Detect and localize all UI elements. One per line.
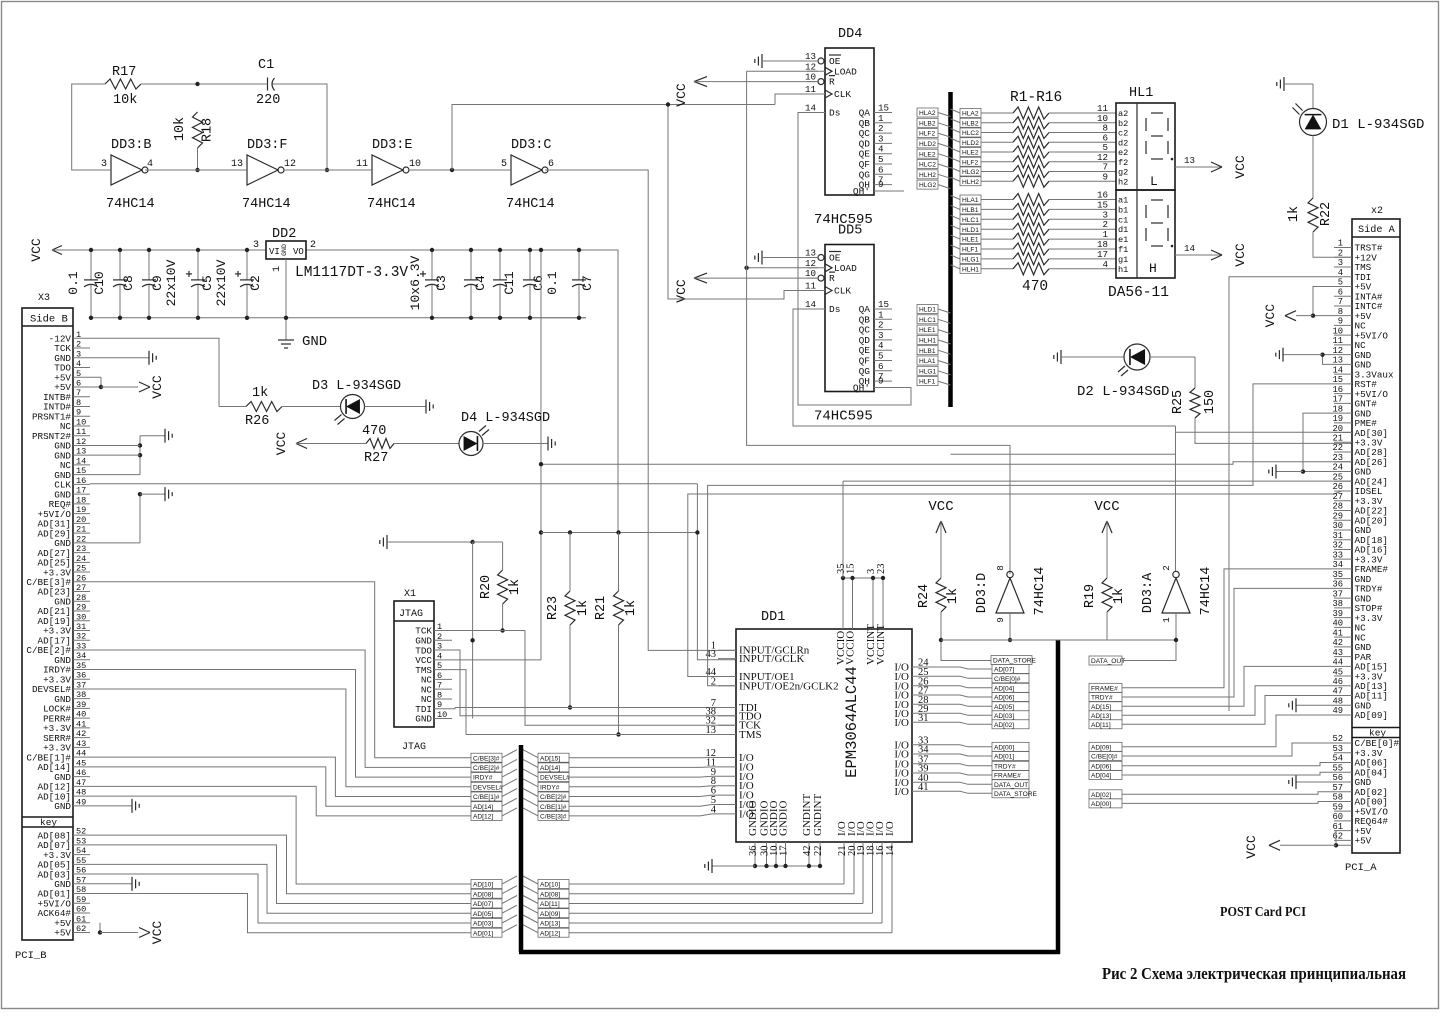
svg-text:DD3:E: DD3:E <box>372 138 413 153</box>
wire AD24 row to DD1 power drop <box>842 481 844 578</box>
svg-text:HLD1: HLD1 <box>919 307 936 314</box>
svg-text:74HC14: 74HC14 <box>506 197 555 212</box>
svg-text:32: 32 <box>76 632 86 642</box>
svg-text:7: 7 <box>76 388 81 398</box>
svg-text:VCC: VCC <box>1244 835 1259 859</box>
svg-text:AD[03]: AD[03] <box>473 921 493 928</box>
DD1 pin 34 I/O <box>912 753 930 755</box>
svg-text:HLH2: HLH2 <box>962 179 979 186</box>
svg-text:11: 11 <box>805 84 817 95</box>
svg-text:3: 3 <box>1338 258 1343 268</box>
node AD[01] label DD1 right lower <box>992 752 1029 761</box>
svg-text:HLF2: HLF2 <box>962 159 978 166</box>
node HLC1 label DD5 <box>917 315 938 324</box>
wire pullup rail <box>541 532 697 534</box>
node AD[11] label right of bus <box>1089 720 1122 729</box>
svg-text:JTAG: JTAG <box>402 742 426 753</box>
svg-text:VCC: VCC <box>1233 155 1248 179</box>
node AD[03] label DD1 right <box>992 711 1029 720</box>
svg-text:7: 7 <box>1338 297 1343 307</box>
wire IDSEL row to DD1 OE1 <box>688 491 1342 677</box>
node AD[13] lower right label <box>538 919 569 928</box>
svg-text:49: 49 <box>1332 706 1343 716</box>
svg-text:17: 17 <box>779 846 790 857</box>
node IRDY# right label <box>538 782 569 791</box>
svg-text:41: 41 <box>76 719 86 729</box>
svg-text:HLH2: HLH2 <box>919 172 936 179</box>
node HLD2 label DD4 <box>917 139 938 148</box>
capacitor C8 <box>119 250 121 280</box>
wire TDO to DD1 <box>452 650 736 716</box>
svg-text:VCC: VCC <box>274 432 289 456</box>
wire FRAME# to X2 <box>1122 569 1334 688</box>
svg-text:AD[01]: AD[01] <box>473 930 493 937</box>
inverter DD3:C <box>511 155 542 185</box>
svg-text:31: 31 <box>76 622 86 632</box>
node C/BE[2]# right label <box>538 792 569 801</box>
VCC X3 pins 5-6 <box>90 376 101 378</box>
svg-text:1k: 1k <box>252 386 268 401</box>
resistor R4 net HLD2 <box>951 138 961 142</box>
resistor R8 net HLH2 <box>951 177 961 181</box>
svg-text:45: 45 <box>76 758 86 768</box>
wire bottom rail <box>91 317 586 319</box>
svg-text:18: 18 <box>1332 404 1343 414</box>
wire CLK to DD1 GCLK <box>697 484 736 660</box>
LED D1 <box>1312 84 1314 109</box>
svg-text:d2: d2 <box>1118 138 1128 148</box>
HL1 pin 14 VCC <box>1175 254 1222 256</box>
svg-text:10: 10 <box>437 710 447 720</box>
svg-text:DEVSEL#: DEVSEL# <box>540 775 570 782</box>
svg-text:Рис 2 Схема электрическая пр: Рис 2 Схема электрическая принципиальная <box>1102 964 1406 983</box>
wire AD28 row <box>951 453 1176 455</box>
resistor R15 net HLG1 <box>951 255 961 259</box>
ground X2 pins 18,24 <box>1303 413 1334 471</box>
svg-text:DD3:A: DD3:A <box>1141 572 1156 613</box>
svg-text:LOAD: LOAD <box>834 263 857 274</box>
svg-text:D2 L-934SGD: D2 L-934SGD <box>1077 384 1169 400</box>
svg-text:2: 2 <box>310 240 316 251</box>
svg-text:11: 11 <box>76 427 86 437</box>
svg-text:9: 9 <box>878 376 884 387</box>
wire pullup rail joins CLK vertical <box>695 530 699 534</box>
svg-text:TMS: TMS <box>739 729 762 741</box>
svg-text:LOAD: LOAD <box>834 66 857 77</box>
capacitor C4 <box>470 250 472 280</box>
svg-text:AD[13]: AD[13] <box>1091 713 1111 720</box>
wire AD[02] to X2 <box>1122 792 1334 795</box>
wire DD5 CLK <box>668 105 818 300</box>
node AD[15] label right of bus <box>1089 702 1122 711</box>
resistor R14 net HLF1 <box>951 245 961 249</box>
svg-text:54: 54 <box>76 846 86 856</box>
DD1 pin 37 I/O <box>912 763 930 765</box>
node AD[10] lower right label <box>538 880 569 889</box>
svg-text:9: 9 <box>437 700 442 710</box>
svg-text:5: 5 <box>76 369 81 379</box>
svg-text:74HC14: 74HC14 <box>106 197 155 212</box>
capacitor C11 <box>499 250 501 280</box>
svg-text:55: 55 <box>1332 763 1343 773</box>
svg-text:GNDIO: GNDIO <box>747 801 759 836</box>
DD1 pin 43 INPUT/GCLK <box>718 658 736 660</box>
svg-text:19: 19 <box>76 505 86 515</box>
capacitor C3 <box>431 250 433 280</box>
wire R25 to X2 pin21 <box>1195 418 1352 443</box>
svg-text:R25: R25 <box>1171 390 1186 414</box>
svg-text:AD[11]: AD[11] <box>1091 722 1111 729</box>
resistor R18 <box>193 112 203 148</box>
svg-text:AD[12]: AD[12] <box>473 814 493 821</box>
wire signal row 640 <box>941 639 1176 641</box>
DD1 pin 39 I/O <box>912 772 930 774</box>
node C/BE[3]# left label <box>471 753 502 762</box>
DD1 pin 7 TDI <box>718 707 736 709</box>
svg-text:2: 2 <box>76 340 81 350</box>
svg-text:+5V: +5V <box>1355 836 1372 847</box>
svg-text:13: 13 <box>1184 155 1195 166</box>
svg-text:26: 26 <box>76 573 86 583</box>
svg-text:AD[10]: AD[10] <box>540 882 560 889</box>
svg-text:35: 35 <box>76 661 86 671</box>
resistor R23 <box>569 533 571 592</box>
ground X2 pin 56 <box>1296 781 1334 783</box>
svg-text:4: 4 <box>437 651 442 661</box>
wire TDI line <box>452 708 455 709</box>
DD1 ground pins <box>754 842 756 866</box>
resistor R20 <box>502 542 504 570</box>
svg-text:DD3:C: DD3:C <box>511 138 552 153</box>
svg-text:HLE2: HLE2 <box>919 151 936 158</box>
svg-text:60: 60 <box>1332 812 1343 822</box>
bus display vertical <box>948 92 953 407</box>
svg-text:10k: 10k <box>173 117 188 141</box>
svg-text:17: 17 <box>1332 395 1343 405</box>
svg-text:48: 48 <box>76 788 86 798</box>
svg-text:IRDY#: IRDY# <box>540 784 560 791</box>
svg-text:HLB2: HLB2 <box>919 120 936 127</box>
DD1 pin 11 I/O <box>718 766 736 768</box>
svg-text:12: 12 <box>1332 346 1343 356</box>
svg-text:AD[10]: AD[10] <box>473 882 493 889</box>
svg-text:R19: R19 <box>1083 584 1098 608</box>
svg-text:41: 41 <box>1332 628 1343 638</box>
svg-text:43: 43 <box>1332 648 1343 658</box>
node DEVSEL# right label <box>538 773 569 782</box>
ground X3 pin3 <box>90 357 149 359</box>
svg-text:LM1117DT-3.3V: LM1117DT-3.3V <box>295 265 408 281</box>
svg-text:C/BE[0]#: C/BE[0]# <box>994 676 1021 683</box>
svg-text:C1: C1 <box>258 58 274 73</box>
bus bottom horizontal <box>519 950 1060 955</box>
svg-text:30: 30 <box>1332 521 1343 531</box>
node HLH2 label DD4 <box>917 170 938 179</box>
svg-text:41: 41 <box>918 782 929 793</box>
svg-text:46: 46 <box>1332 677 1343 687</box>
svg-text:12: 12 <box>76 437 86 447</box>
node AD[01] lower left label <box>471 928 502 937</box>
svg-text:VCC: VCC <box>674 83 689 107</box>
node AD[12] lower right label <box>538 928 569 937</box>
svg-text:9: 9 <box>995 617 1006 623</box>
node AD[11] lower right label <box>538 899 569 908</box>
svg-text:HLE2: HLE2 <box>962 150 979 157</box>
svg-text:POST Card PCI: POST Card PCI <box>1220 904 1306 919</box>
DD1 pin 13 TMS <box>718 734 736 736</box>
svg-text:74HC14: 74HC14 <box>1199 567 1214 616</box>
svg-text:10: 10 <box>805 268 816 279</box>
node HLB2 label DD4 <box>917 118 938 127</box>
svg-text:34: 34 <box>1332 560 1343 570</box>
svg-text:HLC2: HLC2 <box>962 130 979 137</box>
wire DD3:A output up <box>1175 426 1177 571</box>
VCC D4 <box>296 439 307 444</box>
inverter DD3:A <box>1162 578 1190 613</box>
svg-text:HLA2: HLA2 <box>919 110 936 117</box>
svg-text:56: 56 <box>1332 773 1343 783</box>
svg-text:39: 39 <box>76 700 86 710</box>
node DATA_OUT label mid <box>1089 656 1122 665</box>
svg-text:AD[09]: AD[09] <box>1091 744 1111 751</box>
svg-text:39: 39 <box>1332 609 1343 619</box>
svg-text:FRAME#: FRAME# <box>994 773 1021 780</box>
node FRAME# label right of bus <box>1089 683 1122 692</box>
svg-text:58: 58 <box>1332 793 1343 803</box>
svg-text:HLG1: HLG1 <box>919 368 937 375</box>
svg-text:43: 43 <box>706 649 717 660</box>
svg-text:48: 48 <box>1332 696 1343 706</box>
node DATA_OUT label DD1 right lower <box>992 780 1029 789</box>
svg-text:C11: C11 <box>502 271 517 295</box>
wire label to DD1 pin <box>569 795 718 796</box>
wire DD4 LOAD <box>747 70 818 72</box>
svg-text:4: 4 <box>1338 268 1343 278</box>
svg-text:14: 14 <box>805 299 817 310</box>
svg-text:e1: e1 <box>1118 235 1128 245</box>
node HLA1 label DD5 <box>917 356 938 365</box>
svg-text:10: 10 <box>76 417 86 427</box>
LED D3 <box>282 406 341 408</box>
wire JTAG gnd pins <box>472 542 474 719</box>
wire DD3:E out to DD3:C in <box>408 169 511 171</box>
node AD[14] right label <box>538 763 569 772</box>
svg-text:C10: C10 <box>92 271 107 294</box>
inverter DD3:E <box>372 155 403 185</box>
node AD[03] lower left label <box>471 919 502 928</box>
svg-text:L: L <box>1150 174 1158 189</box>
svg-text:45: 45 <box>1332 667 1343 677</box>
resistor R11 net HLC1 <box>951 215 961 219</box>
DD1 power pins VCCIO VCCINT <box>842 578 844 629</box>
wire cascade DD5 QH to DD4 Ds <box>798 113 911 406</box>
svg-text:11: 11 <box>356 159 368 170</box>
svg-text:PCI_B: PCI_B <box>15 950 47 962</box>
svg-text:53: 53 <box>1332 744 1343 754</box>
node AD[09] label right of bus <box>1089 742 1122 751</box>
resistor R9 net HLA1 <box>951 196 961 200</box>
node DATA_STORE label DD1 right lower <box>992 789 1029 798</box>
wire top rail right of DD2 <box>306 250 618 533</box>
svg-text:40: 40 <box>1332 619 1343 629</box>
svg-text:14: 14 <box>805 103 817 114</box>
svg-text:Ds: Ds <box>829 108 840 119</box>
svg-text:DD2: DD2 <box>272 227 296 242</box>
wire bundle X3 to labels lower <box>90 796 471 884</box>
svg-text:36: 36 <box>748 846 759 857</box>
svg-text:f2: f2 <box>1118 158 1128 168</box>
svg-text:53: 53 <box>76 836 86 846</box>
DD1 pin 2 INPUT/OE2n/GCLK2 <box>718 685 736 687</box>
svg-text:38: 38 <box>76 690 86 700</box>
wire AD[11] to X2 <box>1122 696 1334 725</box>
svg-text:DD3:D: DD3:D <box>975 573 990 614</box>
svg-text:R: R <box>829 77 835 88</box>
wire AD[13] to X2 <box>1122 686 1334 716</box>
svg-text:HLA1: HLA1 <box>919 358 936 365</box>
resistor R19 <box>1102 578 1112 612</box>
svg-text:4: 4 <box>76 359 81 369</box>
svg-text:C/BE[2]#: C/BE[2]# <box>540 794 567 801</box>
DD1 pin 24 I/O <box>912 666 930 668</box>
node HLA2 label DD4 <box>917 108 938 117</box>
node AD[12] left label <box>471 811 502 820</box>
DD1 pin 9 I/O <box>718 775 736 777</box>
svg-text:C7: C7 <box>580 275 595 291</box>
svg-text:22x10V: 22x10V <box>214 259 229 306</box>
svg-text:VCC: VCC <box>29 238 44 262</box>
svg-text:DD3:F: DD3:F <box>247 138 288 153</box>
svg-text:22: 22 <box>76 534 86 544</box>
svg-text:30: 30 <box>76 612 86 622</box>
svg-text:1k: 1k <box>1112 588 1127 604</box>
inverter DD3:F <box>247 155 278 185</box>
wire TCK <box>452 630 525 632</box>
ground D1 <box>1283 77 1285 91</box>
svg-text:AD[04]: AD[04] <box>994 685 1014 692</box>
svg-text:33: 33 <box>1332 550 1343 560</box>
svg-text:54: 54 <box>1332 754 1343 764</box>
svg-text:8: 8 <box>995 565 1006 571</box>
svg-text:H: H <box>1149 261 1157 276</box>
ground D3 <box>365 406 427 408</box>
node TRDY# label right of bus <box>1089 693 1122 702</box>
svg-text:key: key <box>40 817 57 828</box>
svg-text:HLB1: HLB1 <box>919 348 936 355</box>
wire clock node up to top rail <box>452 105 775 171</box>
svg-text:15: 15 <box>1332 375 1343 385</box>
svg-text:CLK: CLK <box>834 89 851 100</box>
svg-text:13: 13 <box>706 725 717 736</box>
svg-text:AD[02]: AD[02] <box>1091 792 1111 799</box>
svg-text:6: 6 <box>437 671 442 681</box>
wire DD3:D input <box>1009 613 1011 640</box>
svg-text:HLB1: HLB1 <box>962 207 979 214</box>
node C/BE[2]# left label <box>471 763 502 772</box>
svg-text:C/BE[2]#: C/BE[2]# <box>473 765 500 772</box>
DD1 pin 16 I/O bottom <box>881 842 883 923</box>
ground DD4 OE <box>761 54 763 68</box>
svg-text:38: 38 <box>1332 599 1343 609</box>
wire DD3:B out to DD3:F in <box>145 169 247 171</box>
svg-text:HLE1: HLE1 <box>919 327 936 334</box>
svg-text:HLA1: HLA1 <box>962 197 979 204</box>
svg-text:AD[13]: AD[13] <box>540 921 560 928</box>
svg-text:I/O: I/O <box>894 786 909 798</box>
svg-text:AD[09]: AD[09] <box>1355 710 1388 721</box>
capacitor C2 <box>246 250 248 280</box>
svg-text:14: 14 <box>76 456 86 466</box>
node AD[15] right label <box>538 753 569 762</box>
wire DD3:C out to DD1 GCLRn <box>545 170 736 650</box>
wire label to DD1 pin <box>569 814 718 816</box>
svg-text:16: 16 <box>1332 385 1343 395</box>
svg-text:1: 1 <box>437 622 442 632</box>
svg-text:8: 8 <box>76 398 81 408</box>
node AD[07] lower left label <box>471 899 502 908</box>
resistor R25 <box>1150 356 1195 358</box>
svg-text:2: 2 <box>437 632 442 642</box>
svg-text:47: 47 <box>1332 687 1343 697</box>
svg-text:a2: a2 <box>1118 109 1128 119</box>
svg-text:C/BE[3]#: C/BE[3]# <box>473 755 500 762</box>
capacitor C10 <box>90 250 92 280</box>
resistor R12 net HLD1 <box>951 225 961 229</box>
svg-text:GND: GND <box>281 244 288 256</box>
resistor R22 <box>1312 136 1314 199</box>
svg-text:14: 14 <box>1184 243 1196 254</box>
svg-text:33: 33 <box>76 641 86 651</box>
svg-text:1k: 1k <box>576 600 591 616</box>
resistor R21 <box>618 533 620 592</box>
capacitor C9 <box>148 250 150 280</box>
svg-text:D4 L-934SGD: D4 L-934SGD <box>461 411 550 426</box>
VCC DD5 R <box>694 273 707 278</box>
resistor R13 net HLE1 <box>951 235 961 239</box>
node AD[08] lower left label <box>471 889 502 898</box>
svg-text:9: 9 <box>76 408 81 418</box>
svg-text:5: 5 <box>501 159 507 170</box>
svg-text:1k: 1k <box>508 579 523 595</box>
svg-text:14: 14 <box>1332 365 1343 375</box>
resistor R10 net HLB1 <box>951 205 961 209</box>
node HLF2 label DD4 <box>917 129 938 138</box>
node AD[10] lower left label <box>471 880 502 889</box>
svg-text:R17: R17 <box>112 65 136 80</box>
svg-text:28: 28 <box>76 593 86 603</box>
wire LOAD chain down <box>747 71 1010 574</box>
svg-text:19: 19 <box>1332 414 1343 424</box>
svg-text:AD[14]: AD[14] <box>540 765 560 772</box>
svg-text:57: 57 <box>76 875 86 885</box>
svg-text:HL1: HL1 <box>1129 86 1153 101</box>
svg-text:PCI_A: PCI_A <box>1345 862 1377 874</box>
svg-text:35: 35 <box>1332 570 1343 580</box>
DD1 pin 14 I/O bottom <box>891 842 893 933</box>
LED D2 <box>1124 344 1150 370</box>
svg-text:27: 27 <box>1332 492 1343 502</box>
svg-text:C/BE[1]#: C/BE[1]# <box>540 804 567 811</box>
ground X2 pin 48 <box>1296 704 1334 706</box>
svg-text:18: 18 <box>76 495 86 505</box>
svg-text:R1-R16: R1-R16 <box>1010 90 1062 106</box>
DD1 pin 19 I/O bottom <box>862 842 864 904</box>
wire C1 right to DD3:F output node <box>273 84 328 170</box>
VCC X2 pins 61,62 <box>1334 831 1352 846</box>
svg-text:C6: C6 <box>531 275 546 291</box>
svg-text:HLD2: HLD2 <box>919 141 936 148</box>
svg-text:DATA_OUT: DATA_OUT <box>1091 658 1125 665</box>
